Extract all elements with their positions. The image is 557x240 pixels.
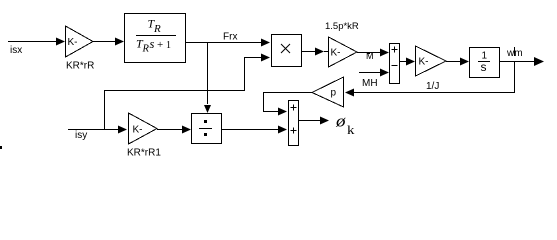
wire gain 1.5p*kR to sum1 (M net): [357, 52, 380, 54]
M label anchor tick on wire: [367, 52, 370, 54]
wire isy input: [68, 129, 118, 131]
wire gain 1/J to integrator: [446, 61, 461, 63]
arrowhead into gain KR*rR: [56, 38, 65, 46]
gain triangle K- (1/J): [416, 46, 447, 76]
fraction bar of TF block: [136, 35, 176, 37]
svg-text:KR*rR: KR*rR: [66, 61, 94, 72]
stray dot bottom-left: [0, 146, 2, 149]
svg-text:R: R: [142, 44, 150, 55]
svg-text:ø: ø: [335, 112, 346, 131]
sum block 2 (+/+): [289, 101, 299, 146]
tick above wm label (branch stub): [514, 47, 516, 56]
gain triangle p (left-pointing): [312, 77, 344, 107]
arrowhead into sum2 top input: [278, 108, 287, 116]
arrowhead into sum1 minus input (MH): [380, 69, 389, 77]
wire sum2 output to wk: [298, 120, 321, 122]
arrowhead into multiply top input: [261, 39, 270, 47]
sum2 plus sign bottom: [291, 128, 297, 134]
gain triangle K- (KR*rR1): [129, 113, 158, 144]
wire sum1 to gain 1/J: [399, 61, 407, 63]
wire isx input: [8, 41, 57, 43]
divide block: [192, 114, 222, 144]
svg-text:1/J: 1/J: [426, 81, 439, 92]
wire divide to sum2: [222, 129, 278, 131]
multiply X symbol: [281, 44, 290, 53]
svg-text:wm: wm: [506, 48, 523, 59]
sum2 plus sign top: [291, 105, 297, 111]
arrowhead into gain KR*rR1: [118, 126, 127, 134]
arrowhead into sum1 plus input: [380, 49, 389, 57]
svg-text:1.5p*kR: 1.5p*kR: [325, 21, 359, 32]
arrowhead into gain 1/J: [406, 58, 415, 66]
divide dots: [204, 120, 207, 123]
arrowhead into divide left input: [182, 126, 191, 134]
wire Frx branch down to divide: [207, 43, 209, 105]
arrowhead into TF block: [115, 38, 124, 46]
svg-text:s: s: [150, 37, 155, 51]
wire gain KR*rR1 to divide: [157, 129, 183, 131]
arrowhead into multiply bottom input: [261, 54, 270, 62]
integrator block 1/s: [470, 48, 500, 78]
svg-text:K-: K-: [419, 57, 429, 68]
wire MH input stub: [359, 72, 381, 74]
sum1 plus sign: [392, 47, 398, 53]
svg-text:Frx: Frx: [223, 32, 237, 43]
svg-text:k: k: [347, 123, 355, 137]
divide bar symbol: [199, 128, 212, 130]
svg-text:isy: isy: [75, 130, 87, 141]
svg-text:R: R: [153, 23, 161, 35]
arrowhead into integrator: [460, 58, 469, 66]
integrator fraction bar: [478, 61, 490, 63]
wire TF block to multiply (Frx net): [186, 42, 262, 44]
arrowhead into divide top input: [204, 105, 211, 113]
wire wm feedback branch down and left to p gain: [354, 62, 515, 93]
arrowhead wm output: [534, 57, 544, 66]
arrowhead into p gain (left): [345, 89, 354, 97]
svg-text:s: s: [481, 60, 487, 74]
wire integrator output wm: [499, 61, 535, 63]
arrowhead into sum2 bottom input: [278, 126, 287, 134]
svg-text:KR*rR1: KR*rR1: [127, 148, 161, 159]
wire p gain to sum2 top input: [264, 93, 313, 112]
wire gain KR*rR to TF block: [93, 41, 116, 43]
svg-text:MH: MH: [362, 78, 378, 89]
transfer function block T_R/(T_R s+1): [125, 14, 186, 63]
svg-text:1: 1: [166, 40, 171, 51]
multiply block: [272, 35, 302, 67]
gain triangle K- (KR*rR): [66, 26, 94, 57]
arrowhead sum2 output: [320, 117, 329, 125]
svg-text:K-: K-: [133, 125, 143, 136]
sum1 minus sign: [392, 65, 398, 67]
svg-text:isx: isx: [10, 45, 22, 56]
arrowhead into gain 1.5p*kR: [315, 48, 324, 56]
gain triangle K- (1.5p*kR): [329, 37, 358, 67]
sum block 1 (+/-): [390, 44, 400, 84]
svg-text:p: p: [331, 88, 337, 99]
svg-text:K-: K-: [331, 48, 341, 59]
wire multiply to gain 1.5p*kR: [302, 51, 328, 53]
wire isy branch up and over to multiply 2nd input: [105, 58, 263, 130]
svg-text:+: +: [157, 39, 163, 51]
svg-text:K-: K-: [68, 37, 78, 48]
